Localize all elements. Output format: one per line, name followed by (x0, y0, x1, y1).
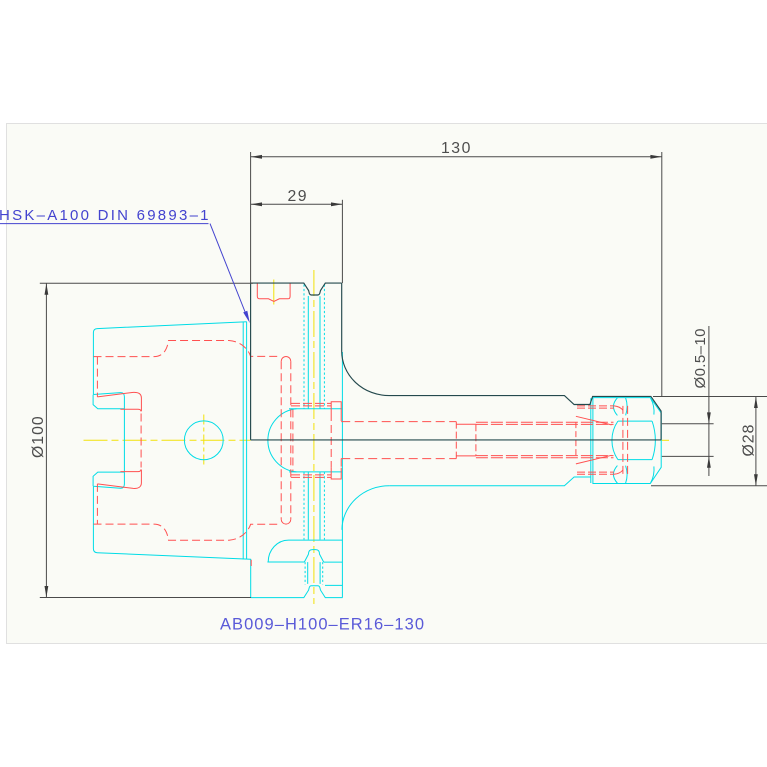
cooling contour upper (94, 341, 282, 357)
thread band upper (291, 403, 331, 406)
dimension texts (30, 140, 758, 458)
coupling dome arc (268, 409, 297, 472)
top pocket vertical centerline (273, 280, 275, 305)
bore shoulder line top (289, 408, 342, 410)
collet corner arcs (614, 406, 623, 474)
right ledge (325, 584, 343, 586)
29 arrows (251, 202, 262, 206)
ext line d100 bottom (40, 597, 251, 599)
face keyway pocket (257, 284, 290, 302)
centerline tick right of nut (662, 439, 670, 441)
taper gauge vertical 2 (246, 322, 248, 559)
dim line 29 (251, 203, 343, 205)
flange bottom tick (250, 560, 252, 566)
thread band lower (291, 475, 331, 478)
ext lines d0.5-10 (662, 424, 714, 457)
collet slot verticals (622, 406, 624, 474)
central axis vertical centerline (313, 270, 315, 604)
lower face groove (mirror of top) (251, 586, 343, 598)
grip groove bottom (93, 472, 124, 488)
lower neck edge (389, 477, 591, 486)
center axis line (251, 439, 661, 441)
d28 arrows (754, 397, 758, 408)
130 arrows (251, 155, 262, 159)
gauge face vertical (250, 283, 252, 440)
svg-text:Ø28: Ø28 (741, 424, 758, 457)
body top edge with groove (251, 283, 342, 295)
bore wall vertical at shoulder (341, 352, 343, 598)
cooling contour lower (94, 524, 282, 540)
nut hex corner lens bottom (613, 466, 627, 484)
right shoulder line (324, 561, 343, 563)
nut chamfer arcs right (651, 398, 654, 483)
collet nut outline (593, 398, 661, 484)
ext line 130 right (661, 152, 663, 397)
dim line d28 (755, 397, 757, 486)
ext line 29 right (341, 200, 343, 283)
flange edge / fillet / neck / nut profile (342, 283, 661, 440)
drawbar bore verticals (phantom) (303, 285, 305, 540)
bore edge vertical (292, 410, 294, 472)
svg-text:AB009–H100–ER16–130: AB009–H100–ER16–130 (220, 616, 424, 634)
drawbar pin cap (304, 550, 323, 563)
bore shoulder line bottom (289, 471, 342, 473)
collet taper slants (576, 416, 612, 464)
dim line 130 (251, 156, 662, 158)
groove connecting vertical (140, 414, 142, 468)
part number text (220, 616, 424, 634)
slot cap bottom (281, 519, 291, 524)
leader line (210, 224, 247, 317)
collet rear rows (577, 406, 614, 474)
bore rows (341, 422, 456, 459)
slot cap top (281, 357, 291, 362)
ext line d100 top (40, 282, 253, 284)
flange lower corner vertical (250, 559, 252, 598)
bore step (455, 422, 457, 459)
leader arrowhead (243, 311, 250, 323)
svg-text:29: 29 (288, 188, 309, 205)
d0.5-10 arrows (outside) (707, 412, 711, 423)
HSK taper bottom edge (93, 486, 250, 559)
svg-text:Ø100: Ø100 (30, 415, 47, 458)
grip groove red top (97, 392, 141, 411)
grip groove top (93, 393, 124, 485)
ext lines d28 (651, 397, 767, 486)
dim line d0.5-10 (708, 326, 710, 476)
main horizontal centerline (left of face) (84, 439, 251, 441)
svg-text:130: 130 (441, 140, 472, 157)
lower cavity hat arc (268, 540, 342, 562)
svg-text:Ø0.5–10: Ø0.5–10 (692, 328, 709, 388)
ext line face top (250, 152, 252, 283)
pin body verticals (308, 562, 320, 584)
lower body fillet (mirror) (342, 486, 389, 530)
HSK taper top edge (93, 322, 246, 395)
drawing sheet frame (7, 124, 767, 644)
grip groove red bottom (97, 470, 141, 489)
d100 arrows (45, 283, 49, 294)
lower cavity ledge (267, 561, 304, 563)
underline (0, 223, 209, 225)
nut hex corner lens top (613, 398, 627, 416)
HSK designation text (0, 207, 209, 224)
bore double rows (476, 422, 614, 457)
drive slot vertical centerline (203, 415, 205, 467)
nut hex barrel (612, 421, 655, 460)
drive slot circle (184, 421, 223, 460)
taper gauge vertical 1 (242, 322, 244, 560)
drawbar bore verticals (solid) (307, 296, 309, 540)
dimension arrowheads (45, 155, 758, 598)
bore step near collet (575, 422, 577, 458)
left pocket verticals (96, 357, 98, 397)
drawbar slot verticals (280, 361, 282, 519)
nut rear face second line (590, 398, 592, 483)
dim line d100 (45, 283, 47, 597)
